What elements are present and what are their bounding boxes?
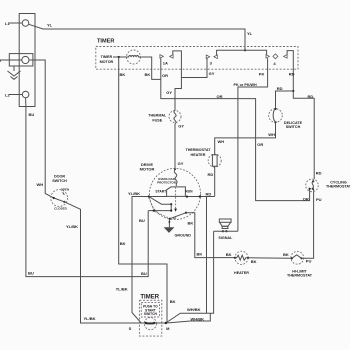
svg-text:HEATER: HEATER: [234, 271, 249, 275]
svg-text:GY: GY: [178, 161, 184, 166]
svg-text:RD: RD: [277, 86, 283, 91]
svg-text:1A: 1A: [163, 60, 168, 65]
svg-text:BK: BK: [283, 252, 289, 257]
svg-text:SIGNAL: SIGNAL: [218, 236, 233, 240]
wire BU (L2 to motor switch): [26, 98, 149, 277]
delicate switch S2: [269, 108, 303, 129]
svg-text:WH: WH: [218, 139, 225, 144]
door switch S1: [51, 174, 69, 210]
svg-text:GROUND: GROUND: [175, 234, 192, 238]
svg-text:RD: RD: [316, 170, 322, 175]
svg-text:PU: PU: [306, 258, 312, 263]
motor run lead: [186, 196, 215, 198]
svg-text:SWITCH: SWITCH: [144, 312, 158, 316]
node M: [165, 322, 167, 324]
svg-text:YL: YL: [247, 31, 253, 36]
svg-text:RD: RD: [308, 94, 314, 99]
svg-text:BK: BK: [170, 299, 176, 304]
drive motor M1: [140, 162, 201, 219]
overload protector (inside motor): [157, 168, 177, 186]
motor internal link wire: [170, 204, 172, 210]
motor BU contact row: [148, 210, 171, 212]
timer box (dashed): [96, 47, 298, 70]
wire RD (to delicate switch): [276, 91, 294, 108]
wire WH (delicate switch to thermostat heater): [215, 122, 276, 155]
push-to-start timer box (dashed): [139, 294, 161, 336]
svg-text:WH: WH: [268, 132, 275, 137]
svg-text:BK: BK: [188, 220, 194, 225]
svg-text:CLOSED: CLOSED: [54, 206, 67, 210]
node YL junction: [244, 49, 246, 51]
node RD junction: [292, 90, 294, 92]
wire PU (hi-limit to cycling thermostat): [302, 189, 314, 258]
svg-text:BU: BU: [141, 271, 147, 276]
svg-text:OR: OR: [217, 94, 223, 99]
wire WH/BK (signal to push-to-start M): [166, 231, 214, 323]
ground (drive motor): [164, 219, 192, 238]
wire (push-to-start to M node): [154, 322, 166, 324]
svg-text:DELICATE: DELICATE: [284, 121, 303, 125]
svg-text:MOTOR: MOTOR: [140, 167, 155, 172]
wire BK (timer motor to push-to-start M): [119, 57, 167, 323]
wire GY (thermal fuse to drive motor): [174, 124, 176, 170]
svg-text:RUN: RUN: [185, 190, 193, 194]
svg-text:OR: OR: [162, 73, 168, 78]
svg-text:RD: RD: [206, 192, 212, 197]
wire YL/BK (motor start lead riser): [132, 197, 167, 323]
node timer motor left: [118, 56, 120, 58]
svg-text:PK: PK: [259, 71, 265, 76]
svg-text:YL/BK: YL/BK: [116, 286, 128, 291]
svg-text:MOTOR: MOTOR: [100, 60, 114, 64]
thermostat heater R2: [185, 148, 221, 167]
svg-text:PK or PK/WH: PK or PK/WH: [234, 83, 257, 87]
svg-text:YL/BK: YL/BK: [66, 224, 78, 229]
wire BK (heater to hi-limit): [248, 257, 292, 260]
svg-text:HEATER: HEATER: [191, 153, 206, 157]
svg-text:YL: YL: [47, 23, 53, 28]
svg-text:BK: BK: [120, 241, 126, 246]
svg-text:PROTECTOR: PROTECTOR: [157, 180, 177, 184]
svg-text:RD: RD: [289, 71, 295, 76]
svg-text:TIMER: TIMER: [140, 294, 159, 300]
heater HTR1: [234, 251, 249, 275]
motor centrifugal linkage (dashed): [174, 187, 177, 212]
timer motor M2: [100, 50, 142, 64]
svg-text:THERMAL: THERMAL: [148, 113, 167, 117]
svg-text:DOOR: DOOR: [54, 174, 65, 178]
ground (terminal block): [8, 66, 21, 79]
svg-text:YL/BK: YL/BK: [84, 316, 96, 321]
svg-text:BK: BK: [197, 252, 203, 257]
wire RD (thermostat heater to motor run lead): [214, 166, 216, 196]
svg-text:BU: BU: [29, 112, 35, 117]
svg-text:SWITCH: SWITCH: [286, 125, 301, 129]
svg-text:OPEN: OPEN: [61, 187, 70, 191]
motor internal switch arm (start): [149, 197, 171, 205]
svg-text:L1: L1: [5, 21, 10, 26]
svg-text:L2: L2: [5, 93, 10, 98]
thermal fuse F1: [148, 110, 181, 123]
svg-text:SWITCH: SWITCH: [52, 179, 67, 183]
svg-text:S: S: [129, 326, 132, 331]
svg-text:WH: WH: [37, 182, 44, 187]
svg-text:GY: GY: [178, 123, 184, 128]
wire GY (contact 3 branch): [181, 58, 207, 77]
wire YL (L1 to timer contacts): [29, 24, 245, 50]
wire WH (N to door switch): [29, 60, 54, 198]
terminal N: [0, 54, 33, 66]
svg-text:PU: PU: [316, 197, 322, 202]
motor start lead node: [148, 195, 150, 197]
svg-text:RD: RD: [208, 172, 214, 177]
motor centrifugal switch arm (to BK): [169, 218, 171, 220]
svg-text:N: N: [0, 58, 1, 63]
push-to-start switch S5: [144, 318, 156, 330]
wire RD (contact 4 out): [287, 51, 293, 91]
svg-text:THERMOSTAT: THERMOSTAT: [326, 185, 350, 189]
motor windings block (START / RUN): [155, 187, 193, 197]
wire (contact 3 to contact 4 common, joins YL): [217, 50, 267, 55]
svg-text:GY: GY: [209, 71, 215, 76]
svg-text:THERMOSTAT: THERMOSTAT: [287, 274, 313, 278]
terminal L1: [5, 20, 29, 27]
timer contact 1A: [160, 55, 173, 66]
svg-text:GY: GY: [166, 90, 172, 95]
wire BK (motor switch to heater): [186, 213, 235, 258]
svg-text:BK: BK: [120, 72, 126, 77]
svg-text:WH/BK: WH/BK: [191, 316, 205, 321]
wire RD (motor run to push-to-start M): [206, 197, 208, 314]
terminal block TB1: [19, 14, 35, 107]
svg-text:THERMOSTAT: THERMOSTAT: [185, 148, 211, 152]
signal buzzer LS1: [214, 219, 238, 240]
svg-text:TIMER: TIMER: [101, 55, 113, 59]
svg-text:BU: BU: [139, 218, 145, 223]
hi-limit thermostat S4: [287, 251, 313, 277]
svg-text:BK: BK: [226, 252, 232, 257]
svg-text:BU: BU: [28, 271, 34, 276]
wire BK (timer motor coil to contact 1A riser): [141, 57, 161, 79]
svg-text:BK: BK: [145, 72, 151, 77]
svg-text:START: START: [155, 190, 166, 194]
wire OR (contact 1A to cycling thermostat): [161, 58, 310, 200]
svg-text:OR: OR: [303, 196, 309, 201]
wire RD (to cycling thermostat): [293, 91, 314, 179]
cycling thermostat S3: [306, 179, 350, 192]
svg-text:WH/BK: WH/BK: [187, 307, 201, 312]
wire PK (contact 4 to signal): [238, 58, 268, 231]
wire WH/BK (lower, to M): [167, 313, 211, 323]
wire GY (contact 1A to thermal fuse): [173, 51, 182, 111]
timer contact 4: [266, 54, 287, 66]
motor gang linkage (dashed): [149, 198, 154, 210]
wire YL/BK (door switch to push-to-start S): [64, 202, 146, 323]
svg-text:BK: BK: [251, 259, 257, 264]
svg-text:FUSE: FUSE: [152, 118, 162, 122]
svg-text:YL/BK: YL/BK: [128, 191, 140, 196]
svg-text:TIMER: TIMER: [97, 39, 114, 45]
terminal L2: [5, 91, 29, 98]
timer contact 3: [206, 55, 217, 66]
svg-text:OR: OR: [257, 142, 263, 147]
